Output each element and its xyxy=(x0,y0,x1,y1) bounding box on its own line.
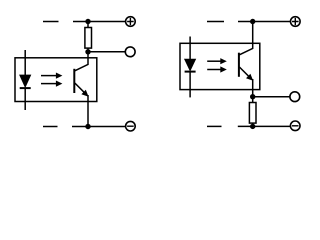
node: right emitter junction xyxy=(250,94,255,99)
wire: left resistor leads (vertical) xyxy=(87,22,89,52)
light arrow 1 (U2) xyxy=(207,58,227,64)
light arrow 2 (U1) xyxy=(41,81,62,87)
node: left collector junction xyxy=(85,49,90,54)
terminal: left + supply xyxy=(126,17,136,27)
wire: right bottom rail dash xyxy=(207,125,222,127)
wire: left top rail dash xyxy=(43,21,59,23)
node: right top junction xyxy=(250,19,255,24)
resistor R1 xyxy=(85,28,92,49)
LED D1 (inside U1) xyxy=(20,50,31,110)
node: left top junction xyxy=(85,19,90,24)
terminal: left - supply xyxy=(126,121,136,131)
optocoupler U1 package box xyxy=(15,58,97,102)
terminal: right - supply xyxy=(290,121,300,131)
wire: left output wire xyxy=(88,51,126,53)
wire: right emitter to output junction xyxy=(252,79,254,97)
optocoupler U2 package box xyxy=(180,43,260,89)
light arrow 1 (U1) xyxy=(41,73,62,79)
terminal: left output xyxy=(125,47,135,57)
light arrow 2 (U2) xyxy=(207,66,227,72)
node: right bottom junction xyxy=(250,124,255,129)
resistor R2 xyxy=(249,103,256,124)
LED D2 (inside U2) xyxy=(185,37,196,98)
wire: right top rail dash xyxy=(207,21,224,23)
wire: left bottom rail dash xyxy=(43,126,58,128)
wire: right output wire xyxy=(253,96,290,98)
wire: left top rail solid to + terminal xyxy=(73,21,126,23)
wire: right top rail solid to + terminal xyxy=(238,21,291,23)
wire: right bottom rail solid to - terminal xyxy=(238,125,291,127)
node: left bottom junction xyxy=(85,124,90,129)
terminal: right output xyxy=(290,92,300,102)
phototransistor Q2 (inside U2) xyxy=(239,22,253,81)
phototransistor Q1 (inside U1) xyxy=(74,52,88,97)
terminal: right + supply xyxy=(291,17,301,27)
wire: right resistor leads (vertical) xyxy=(252,97,254,127)
wire: left emitter to bottom rail xyxy=(87,95,89,127)
wire: left bottom rail solid to - terminal xyxy=(72,126,126,128)
